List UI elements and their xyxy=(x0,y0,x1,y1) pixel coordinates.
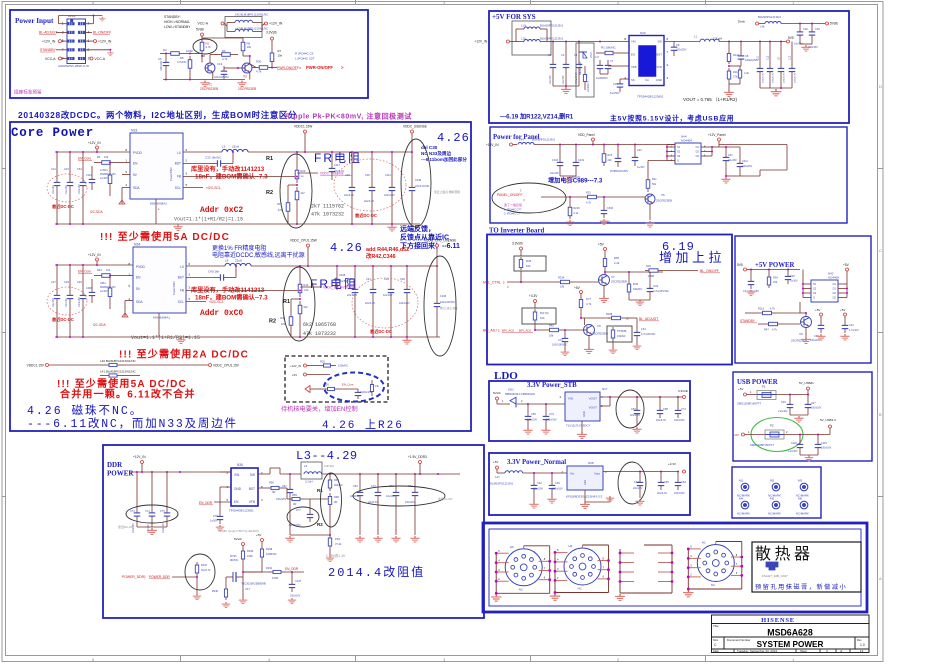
ground panel caps xyxy=(721,175,730,183)
capacitor C29 xyxy=(808,24,820,50)
svg-text:C79: C79 xyxy=(549,412,554,416)
svg-text:0R: 0R xyxy=(293,502,296,506)
blue dashed EN ellipse xyxy=(324,373,384,402)
svg-text:C8: C8 xyxy=(676,43,680,47)
block +5V FOR SYS xyxy=(489,11,849,123)
svg-text:220u/6.3V: 220u/6.3V xyxy=(763,72,765,83)
svg-text:C111: C111 xyxy=(385,173,391,177)
output caps C111 xyxy=(384,151,395,225)
svg-text:BPI_ADJ: BPI_ADJ xyxy=(502,329,515,333)
svg-text:改R42,C346: 改R42,C346 xyxy=(366,252,396,260)
svg-text:100n/16V: 100n/16V xyxy=(79,297,81,307)
svg-text:4.7k: 4.7k xyxy=(206,45,212,49)
svg-text:+12V_IN: +12V_IN xyxy=(486,143,499,147)
resistor R177 inv xyxy=(579,296,592,319)
net 5V5 in xyxy=(737,263,800,271)
svg-text:8.2n/50V: 8.2n/50V xyxy=(610,92,620,95)
svg-text:PWR-ON/OFF: PWR-ON/OFF xyxy=(306,65,333,70)
heatsink socket H2 xyxy=(564,544,601,591)
svg-text:AO4409: AO4409 xyxy=(681,139,692,143)
svg-text:D1: D1 xyxy=(833,287,837,291)
svg-text:GND: GND xyxy=(234,487,242,491)
svg-text:SCL: SCL xyxy=(178,300,184,304)
svg-text:EN: EN xyxy=(133,162,138,166)
ellipse usense 1 xyxy=(401,139,431,227)
svg-text:R188: R188 xyxy=(606,312,613,316)
IC N42 xyxy=(802,270,848,303)
svg-text:H1: H1 xyxy=(702,541,706,545)
svg-text:PT300B: PT300B xyxy=(617,329,627,333)
svg-text:C348: C348 xyxy=(86,287,92,290)
output caps C11 C12 C9 C13 xyxy=(757,42,797,90)
svg-text:+5V POWER: +5V POWER xyxy=(755,262,795,269)
svg-text:Power Input: Power Input xyxy=(15,17,54,25)
ground R346 xyxy=(222,602,231,608)
svg-text:C6A: C6A xyxy=(681,480,686,484)
resistor PT300B xyxy=(611,327,626,348)
svg-text:+12V_IN: +12V_IN xyxy=(133,455,146,459)
capacitor C46 xyxy=(77,265,86,309)
ellipse R347 xyxy=(185,554,215,590)
svg-text:37.4k: 37.4k xyxy=(335,542,342,546)
net EN_Core 1 xyxy=(78,157,92,161)
svg-text:R68: R68 xyxy=(334,495,339,499)
net +12V_Panel xyxy=(708,133,787,176)
svg-text:+5V: +5V xyxy=(843,263,850,267)
svg-text:Ripple Pk-PK<80mV, 注意回极测试: Ripple Pk-PK<80mV, 注意回极测试 xyxy=(285,112,412,121)
svg-text:100R/NC: 100R/NC xyxy=(266,552,277,556)
svg-text:C3: C3 xyxy=(561,53,565,57)
svg-text:Vout=1.1*(1+R1/R2)=1.15: Vout=1.1*(1+R1/R2)=1.15 xyxy=(174,217,243,223)
svg-text:+5V FOR SYS: +5V FOR SYS xyxy=(492,13,536,21)
svg-text:R11: R11 xyxy=(733,70,738,74)
svg-text:VIN: VIN xyxy=(568,397,573,401)
svg-text:DLM16PG121SN1: DLM16PG121SN1 xyxy=(490,482,514,486)
svg-text:V17: V17 xyxy=(245,587,250,591)
svg-text:V2: V2 xyxy=(243,75,247,79)
ground C28 C29 xyxy=(800,40,812,51)
capacitor C56 stb xyxy=(525,404,538,428)
svg-text:R298: R298 xyxy=(266,547,273,551)
diode D5 en 1 xyxy=(100,163,116,197)
svg-text:R3: R3 xyxy=(163,48,167,52)
resistor R331 xyxy=(266,566,304,580)
ground core1 mid xyxy=(173,225,182,231)
resistor R47 5vp xyxy=(764,322,800,331)
resistor PR1 xyxy=(328,508,342,556)
svg-text:靠近上极点 预留: 靠近上极点 预留 xyxy=(440,306,458,310)
svg-text:1u/16V: 1u/16V xyxy=(637,166,645,169)
net +12V_IN ddr xyxy=(130,455,231,473)
resistor R298 xyxy=(243,546,277,572)
filter box L14 L15 xyxy=(512,21,551,55)
svg-text:C19: C19 xyxy=(217,62,223,66)
bottom rail core1 xyxy=(55,196,420,225)
svg-text:POWER_DDR: POWER_DDR xyxy=(122,575,145,579)
svg-text:---6.19 加R122,VZ14,删R1: ---6.19 加R122,VZ14,删R1 xyxy=(500,113,574,121)
rail after filter xyxy=(551,41,629,43)
junctions input caps 2 xyxy=(56,264,98,266)
svg-text:BL_ADJUST: BL_ADJUST xyxy=(639,317,658,321)
capacitor C6 xyxy=(158,56,169,72)
net STANDBY 5vp xyxy=(740,319,764,324)
svg-text:VZ14: VZ14 xyxy=(591,52,593,58)
block Power for Panel xyxy=(490,127,847,223)
resistor R119 5vp xyxy=(745,302,800,315)
note resistor values 1 xyxy=(311,204,344,218)
svg-text:靠近上极点 物料预留: 靠近上极点 物料预留 xyxy=(434,190,460,194)
svg-text:VDDC1.15W: VDDC1.15W xyxy=(294,125,312,129)
svg-text:C32 18n/NC: C32 18n/NC xyxy=(205,156,222,160)
capacitor C19 xyxy=(214,62,229,80)
wire v17 drain xyxy=(243,571,268,573)
svg-text:C346: C346 xyxy=(440,294,447,298)
capacitor C8 sw xyxy=(664,42,700,57)
ellipse ddr input caps xyxy=(126,505,178,523)
svg-text:PVDD: PVDD xyxy=(136,265,146,269)
connector KP14 xyxy=(58,14,89,68)
net VCC-A right xyxy=(90,57,106,61)
ground V7 xyxy=(599,286,609,303)
svg-text:VOUT: VOUT xyxy=(589,406,598,410)
ground C43 5vp xyxy=(840,334,849,340)
svg-text:靠近DC-DC: 靠近DC-DC xyxy=(52,203,74,210)
svg-text:C46: C46 xyxy=(77,280,82,284)
svg-text:BPI_ADJ: BPI_ADJ xyxy=(519,329,532,333)
svg-text:VOUT: VOUT xyxy=(589,397,598,401)
capacitor C28 xyxy=(794,24,808,46)
svg-text:C65: C65 xyxy=(664,480,669,484)
svg-text:D2: D2 xyxy=(833,291,837,295)
svg-text:VFB: VFB xyxy=(631,65,637,69)
capacitor C211 panel xyxy=(726,158,753,176)
net 5V5 out xyxy=(787,36,794,43)
capacitor C345 xyxy=(409,152,430,224)
svg-text:R6: R6 xyxy=(222,49,226,53)
capacitor C74 ddr xyxy=(145,472,155,533)
resistor R21 panel xyxy=(646,161,667,193)
svg-text:Core Power: Core Power xyxy=(11,126,94,140)
wire R177 to R188 xyxy=(581,317,610,319)
svg-text:C57: C57 xyxy=(631,407,636,411)
transistor V3 5vp xyxy=(791,312,812,343)
net +12V_IN right xyxy=(86,39,112,43)
svg-text:EN_Core: EN_Core xyxy=(78,157,91,161)
node VDDC_CPU1.15V bead xyxy=(209,364,240,368)
svg-text:BST: BST xyxy=(657,53,663,57)
svg-text:1u/50V: 1u/50V xyxy=(210,520,218,523)
resistor R44 en 2 xyxy=(94,268,133,277)
svg-text:R25: R25 xyxy=(320,360,325,364)
svg-text:D2: D2 xyxy=(696,150,700,154)
svg-text:L44: L44 xyxy=(519,138,524,142)
resistor R43 divider 2 xyxy=(298,298,308,338)
node VDDC1.15V bead xyxy=(27,364,100,368)
svg-text:更换1% FR精度电阻: 更换1% FR精度电阻 xyxy=(212,244,266,252)
ellipse C77 ddr xyxy=(287,507,319,527)
svg-text:100n/16V: 100n/16V xyxy=(674,492,685,495)
ellipse near-dcdc caps 1 xyxy=(47,174,87,202)
svg-text:10k/NC: 10k/NC xyxy=(617,334,626,338)
svg-text:KD1: KD1 xyxy=(508,388,514,392)
wire into V1 base xyxy=(201,53,205,63)
wire powerpad ground 1 xyxy=(156,199,160,224)
capacitor C348 en 2 xyxy=(86,279,95,303)
capacitor C63 ldo2 xyxy=(549,473,563,497)
svg-text:4.7k: 4.7k xyxy=(222,57,228,61)
net VDD_Panel xyxy=(578,133,595,145)
resistor R347 xyxy=(195,562,211,580)
svg-text:库里没有，手动改1141213: 库里没有，手动改1141213 xyxy=(191,286,265,294)
inductor L3 box xyxy=(301,462,334,484)
capacitor C54 xyxy=(77,152,86,196)
net I2C-SCL 1 xyxy=(183,186,221,190)
svg-text:EN: EN xyxy=(234,500,239,504)
svg-text:M4: M4 xyxy=(739,497,743,501)
svg-text:C6: C6 xyxy=(158,57,162,61)
resistor R11 xyxy=(727,65,738,82)
input gnd rail 5vsys xyxy=(553,85,579,87)
net +12V_IN core1 xyxy=(55,141,130,152)
svg-text:100n/16V: 100n/16V xyxy=(160,60,163,71)
svg-text:C34: C34 xyxy=(653,284,659,288)
capacitor C77 ddr xyxy=(289,499,313,527)
net BL-ADJUST xyxy=(39,31,67,35)
svg-text:+5V: +5V xyxy=(840,308,845,312)
grounds ddr caps xyxy=(285,534,419,542)
svg-text:10u/16V: 10u/16V xyxy=(148,524,150,533)
svg-text:C29: C29 xyxy=(815,28,820,31)
inductor L48 stb xyxy=(738,15,825,29)
wire powerpad ground 2 xyxy=(158,313,160,337)
capacitor C en box xyxy=(340,389,372,399)
svg-text:NC N33及周边: NC N33及周边 xyxy=(421,150,452,157)
svg-text:EN_DDR: EN_DDR xyxy=(199,501,213,505)
wire 5V pin 1 xyxy=(122,174,130,176)
inductor L41 bead xyxy=(100,370,140,378)
svg-text:R22: R22 xyxy=(586,191,591,195)
node VDDC_CPU1.15W xyxy=(290,239,317,268)
svg-text:Size: Size xyxy=(713,638,719,642)
svg-text:R50: R50 xyxy=(614,256,620,260)
resistor R68 xyxy=(328,493,339,508)
svg-text:L8: L8 xyxy=(225,259,229,263)
capacitor C218 xyxy=(550,145,563,176)
svg-text:S3: S3 xyxy=(677,154,681,158)
capacitor C35 5vp xyxy=(810,321,824,342)
ground panel C218 xyxy=(560,171,576,183)
ground R218 xyxy=(566,220,575,226)
inductor L15 xyxy=(512,37,563,42)
svg-text:L9: L9 xyxy=(222,145,226,149)
svg-text:47k 1073232: 47k 1073232 xyxy=(311,212,344,218)
svg-text:220u/6.3V: 220u/6.3V xyxy=(773,72,775,83)
svg-text:L1: L1 xyxy=(694,35,698,39)
svg-text:+1.5V_DDR3: +1.5V_DDR3 xyxy=(408,455,427,459)
capacitor C57 stb xyxy=(630,396,640,426)
svg-text:R17: R17 xyxy=(277,202,282,206)
svg-text:STANDBY:: STANDBY: xyxy=(164,15,181,19)
svg-text:Document Number: Document Number xyxy=(727,638,751,642)
svg-text:BLM18PG121SN1: BLM18PG121SN1 xyxy=(540,24,563,28)
transistor V9 xyxy=(584,318,608,336)
svg-text:10k: 10k xyxy=(540,316,545,320)
svg-text:100u/16V: 100u/16V xyxy=(742,165,753,168)
svg-text:add R44,R46,d52: add R44,R46,d52 xyxy=(366,247,409,253)
svg-text:BST: BST xyxy=(178,276,184,280)
capacitor C346 xyxy=(434,266,458,337)
mounting hole M4 xyxy=(737,497,750,516)
IC N34 xyxy=(128,243,190,320)
ground PR1 xyxy=(326,556,335,562)
svg-text:C87: C87 xyxy=(282,485,287,488)
ground C35 5vp xyxy=(816,334,825,340)
svg-text:M5: M5 xyxy=(770,497,774,501)
ground socket H1 xyxy=(683,590,693,597)
svg-text:100n/25V: 100n/25V xyxy=(676,49,687,52)
net 5Vstb ldo xyxy=(493,391,510,404)
svg-text:5Vstb: 5Vstb xyxy=(234,537,242,541)
svg-text:VDDC_CPU_VSENSE: VDDC_CPU_VSENSE xyxy=(323,286,355,290)
svg-text:N36: N36 xyxy=(237,463,243,467)
svg-text:VCC-A: VCC-A xyxy=(45,57,56,61)
svg-text:10k: 10k xyxy=(104,155,109,159)
svg-text:C: C xyxy=(879,248,882,253)
svg-text:+12V_Panel: +12V_Panel xyxy=(708,133,726,137)
net 5Vstb standby xyxy=(196,28,204,39)
svg-text:L3--4.29: L3--4.29 xyxy=(296,449,358,463)
ground C57 xyxy=(632,427,641,433)
capacitor C34 inv xyxy=(647,272,669,300)
svg-text:100n/16V: 100n/16V xyxy=(810,339,821,342)
heatsink label box xyxy=(752,542,861,592)
wire collector branch xyxy=(605,271,663,273)
svg-text:L48: L48 xyxy=(760,25,765,29)
block Power Input xyxy=(10,10,368,98)
svg-text:VOUT = 0.765 （1+R1/R2): VOUT = 0.765 （1+R1/R2) xyxy=(683,97,737,102)
capacitor C219 xyxy=(570,145,585,180)
svg-text:22u/10V: 22u/10V xyxy=(633,487,643,490)
ground C43 xyxy=(633,344,642,350)
output caps C48 xyxy=(399,265,410,338)
note standby logic xyxy=(164,15,191,29)
net +3.3V inv xyxy=(529,294,538,308)
svg-text:M1: M1 xyxy=(739,479,743,483)
svg-text:J40: J40 xyxy=(734,433,739,437)
capacitor C75 xyxy=(160,472,170,533)
net SEL_CTRL xyxy=(483,281,556,290)
svg-text:MSH6008A1: MSH6008A1 xyxy=(150,202,167,206)
net I2C-SCL 2 xyxy=(186,300,224,304)
svg-text:S2: S2 xyxy=(677,150,681,154)
net VDDC_VSENSE xyxy=(296,172,352,178)
transistor V2 xyxy=(224,63,256,91)
ground C306 xyxy=(600,219,609,225)
svg-text:MS808del 16V: MS808del 16V xyxy=(100,173,116,176)
svg-text:R2: R2 xyxy=(317,522,323,527)
svg-text:L (PC#4C C5T: L (PC#4C C5T xyxy=(295,57,315,61)
svg-text:19k/NC: 19k/NC xyxy=(633,287,642,291)
svg-text:+5V: +5V xyxy=(815,308,820,312)
capacitor C4 in xyxy=(574,42,582,87)
resistor R30 xyxy=(252,60,275,74)
ground ddr caps xyxy=(137,521,167,534)
svg-text:USB POWER: USB POWER xyxy=(737,379,778,386)
ground usb1 xyxy=(794,416,803,422)
svg-text:2.2u/10V: 2.2u/10V xyxy=(788,450,798,453)
capacitor C69 xyxy=(350,474,363,535)
svg-text:PowerPAD: PowerPAD xyxy=(169,168,173,181)
fuse F2 xyxy=(750,424,788,448)
svg-text:Addr 0xC2: Addr 0xC2 xyxy=(200,206,243,215)
capacitor C47 xyxy=(51,265,60,309)
svg-text:FB: FB xyxy=(180,289,184,293)
capacitor C64 ldo2 xyxy=(633,471,643,499)
svg-text:VDDC1.15V: VDDC1.15V xyxy=(27,364,45,368)
svg-text:TO Inverter Board: TO Inverter Board xyxy=(489,228,544,235)
resistor RX 3.4k xyxy=(729,66,750,84)
svg-text:C47: C47 xyxy=(51,280,56,284)
svg-text:5V_USB#1: 5V_USB#1 xyxy=(799,381,814,385)
resistor R22 panel xyxy=(584,191,645,205)
capacitor C989 xyxy=(610,145,629,174)
svg-text:100n/16V: 100n/16V xyxy=(384,194,395,197)
net 5V_USB#1 xyxy=(799,381,814,395)
ellipse output caps 2 xyxy=(352,278,418,328)
capacitor C31 panel xyxy=(723,147,738,176)
net VDDC_CPU_VSENSE xyxy=(299,286,355,292)
svg-text:10u/16V: 10u/16V xyxy=(383,294,393,297)
capacitor C1 in xyxy=(548,42,556,87)
svg-text:C31: C31 xyxy=(728,154,733,157)
svg-text:M6: M6 xyxy=(798,497,802,501)
svg-text:PR1: PR1 xyxy=(335,537,341,541)
svg-text:K77: K77 xyxy=(586,297,591,301)
inductor L4 ldo2 xyxy=(490,471,567,486)
svg-text:2. IPC#4C C?: 2. IPC#4C C? xyxy=(504,212,521,216)
svg-text:R34: R34 xyxy=(773,276,778,280)
capacitor C49 usb xyxy=(778,395,793,416)
svg-text:+12V_IN: +12V_IN xyxy=(290,364,301,368)
capacitor C116 usb xyxy=(788,435,803,456)
note manual change 1 xyxy=(191,165,268,181)
svg-text:R33: R33 xyxy=(646,264,651,268)
svg-text:GND: GND xyxy=(582,411,586,417)
svg-text:4.7k: 4.7k xyxy=(586,302,592,306)
svg-text:靠近DC-DC: 靠近DC-DC xyxy=(370,328,392,335)
svg-text:SW: SW xyxy=(657,40,662,44)
resistor R346 gate xyxy=(212,577,228,600)
capacitor C62 ldo2 xyxy=(531,473,544,502)
svg-text:22uH: 22uH xyxy=(235,259,242,263)
svg-text:KF1086D33SAZ1SN43-3.3: KF1086D33SAZ1SN43-3.3 xyxy=(566,495,603,499)
svg-text:2k7 1115762: 2k7 1115762 xyxy=(311,204,344,210)
node VDDC_CPU_USENSE xyxy=(424,239,456,268)
svg-text:5V_USB3.0: 5V_USB3.0 xyxy=(820,418,836,422)
resistor R6 xyxy=(210,49,238,63)
resistor R26 en box xyxy=(322,383,354,391)
capacitor C30 panel xyxy=(632,145,645,170)
svg-text:V7: V7 xyxy=(611,275,615,279)
svg-text:10u/16V: 10u/16V xyxy=(66,298,68,307)
net I2C-SDA 2 xyxy=(93,301,133,328)
svg-text:2.2 uH: 2.2 uH xyxy=(713,37,722,41)
svg-text:S3: S3 xyxy=(813,291,817,295)
svg-text:R346: R346 xyxy=(212,589,219,593)
svg-text:---6.11改NC，而加N33及周边件: ---6.11改NC，而加N33及周边件 xyxy=(27,416,238,431)
svg-text:N38: N38 xyxy=(588,461,594,465)
capacitor C141 en 1 xyxy=(86,166,95,190)
